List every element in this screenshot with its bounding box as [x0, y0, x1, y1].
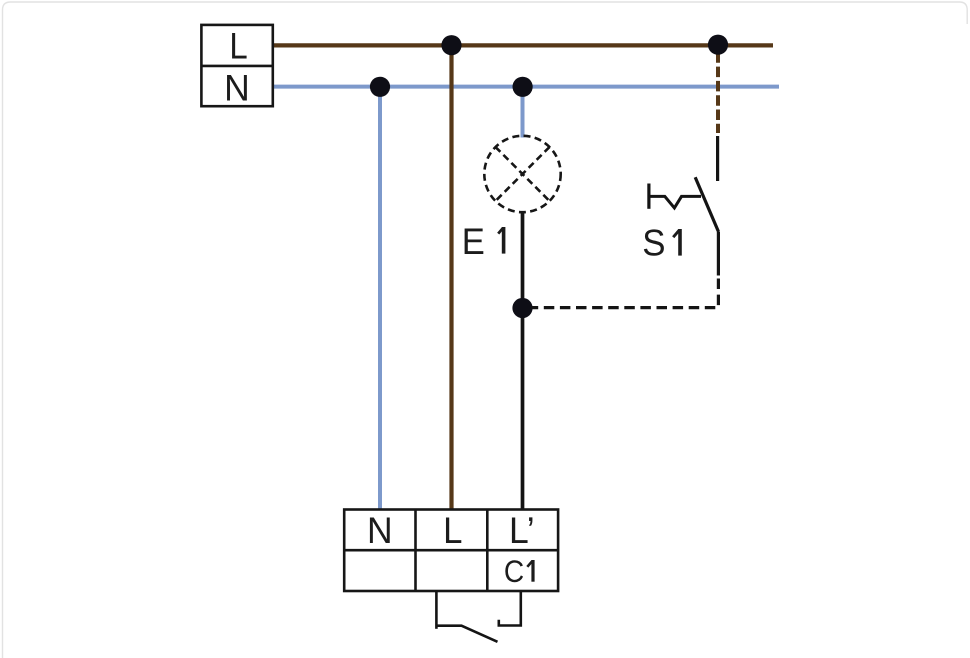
svg-text:E: E: [462, 220, 485, 262]
svg-text:S: S: [642, 221, 665, 263]
svg-text:L’: L’: [509, 510, 535, 552]
svg-text:L: L: [229, 26, 247, 67]
svg-text:N: N: [367, 510, 393, 552]
svg-text:N: N: [224, 67, 250, 109]
svg-text:L: L: [443, 510, 462, 551]
svg-text:C: C: [504, 554, 524, 589]
